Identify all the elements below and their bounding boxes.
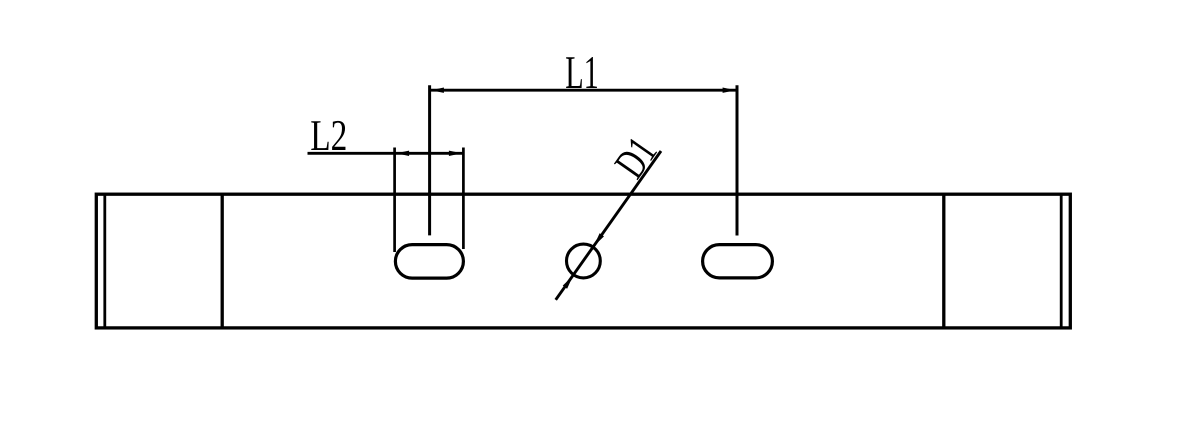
hole circle (D1) [567,244,601,278]
L2 extension line right (slot S1 right edge) [462,148,465,250]
bar right section line [942,194,945,328]
label L2 [311,121,345,150]
label D1 (rotated along leader) [614,136,658,181]
bar left section line [221,194,224,328]
slot S1 (left obround hole) [395,245,463,279]
slot S2 (right obround hole) [703,245,773,278]
L2 dimension line [308,152,464,155]
L1 extension line left (slot S1 centerline) [428,85,431,235]
L2 extension line left (slot S1 left edge) [393,148,396,253]
D1 arrow upper (points to circle top-right) [594,233,604,246]
D1 arrow lower (points to circle bottom-left) [563,276,573,289]
L1 dimension line [430,89,737,92]
L1 extension line right (slot S2 centerline) [736,85,739,235]
label L1 [566,57,597,88]
bar inner right edge line [1060,194,1063,328]
L2 arrow left [396,151,409,156]
D1 leader line [556,151,661,300]
bar outline (part body) [96,194,1070,328]
L1 arrow left [431,88,444,93]
L2 arrow right [449,151,462,156]
bar inner left edge line [103,194,106,328]
L1 arrow right [723,88,736,93]
